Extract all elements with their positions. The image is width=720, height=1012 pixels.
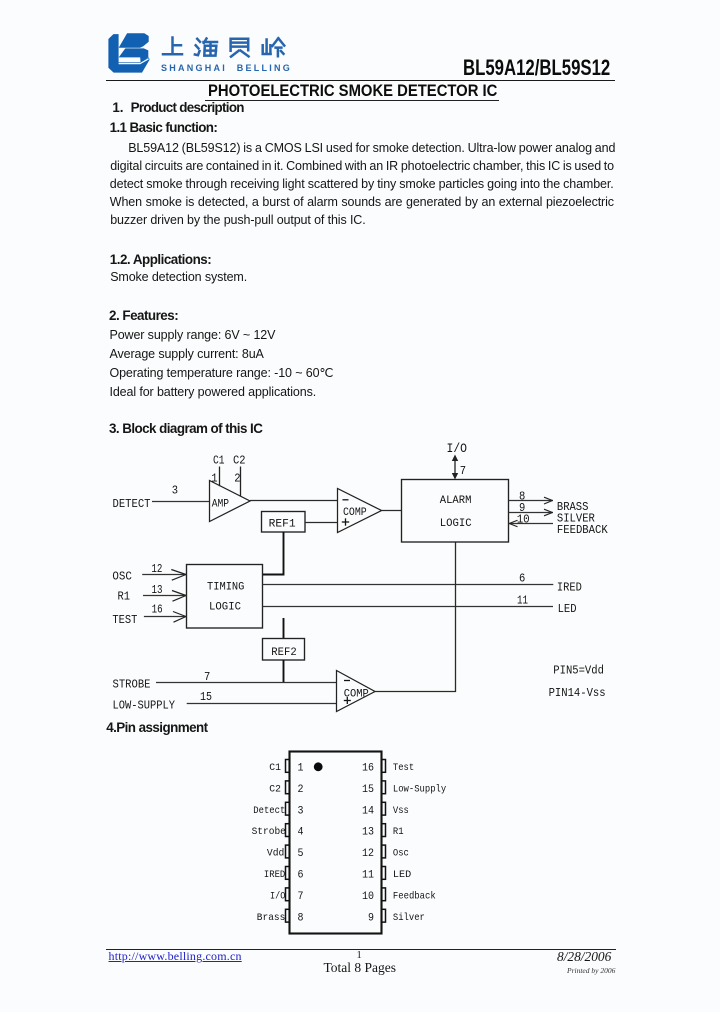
svg-text:Low-Supply: Low-Supply [393, 783, 446, 795]
svg-text:2: 2 [298, 784, 304, 796]
pin 13 number [362, 827, 374, 839]
pin C2 label [269, 783, 281, 795]
wire REF1 to COMP1 plus input [305, 522, 338, 524]
node DETECT [113, 497, 151, 511]
pin 2 stub wire [240, 467, 242, 497]
pin Low-Supply label [393, 783, 446, 795]
svg-text:10: 10 [362, 891, 374, 903]
svg-text:1: 1 [298, 763, 304, 775]
wire BRASS output pin8 [509, 497, 554, 504]
pin Feedback label [393, 890, 436, 902]
node R1 [118, 590, 131, 604]
pin 3 stub [286, 802, 290, 815]
wire REF2 bottom to STROBE wire [283, 660, 285, 683]
pin 16 stub [382, 760, 386, 773]
node LED [558, 602, 577, 616]
pin 6 number [298, 870, 304, 882]
pin Detect label [253, 805, 285, 817]
pin I/O label [270, 890, 285, 902]
svg-text:I/O: I/O [270, 890, 285, 902]
capacitor C1 label [213, 453, 225, 467]
pin 6 label [519, 572, 525, 586]
pin 2 label [234, 471, 240, 485]
svg-text:C1: C1 [269, 762, 281, 774]
comparator COMP2 [337, 671, 376, 712]
svg-text:Osc: Osc [393, 848, 409, 860]
pin 13 stub [382, 824, 386, 837]
pin 10 stub [382, 888, 386, 901]
pin 3 number [298, 805, 304, 817]
pin 2 number [298, 784, 304, 796]
reference REF2 [263, 639, 305, 661]
pin R1 label [393, 826, 404, 838]
svg-text:Vdd: Vdd [267, 848, 284, 860]
svg-text:11: 11 [362, 870, 374, 882]
wire SILVER output pin9 [509, 509, 554, 516]
pin 3 label [172, 483, 178, 497]
pin 12 number [362, 848, 374, 860]
svg-text:Test: Test [393, 762, 414, 774]
svg-text:Feedback: Feedback [393, 890, 436, 902]
pin 6 stub [286, 867, 290, 880]
svg-text:LED: LED [393, 869, 411, 881]
pin 7 stub [286, 888, 290, 901]
svg-text:R1: R1 [393, 826, 404, 838]
pin 8 number [298, 912, 304, 924]
wire COMP1 out to ALARM LOGIC [382, 510, 402, 512]
svg-text:8: 8 [298, 912, 304, 924]
reference REF1 [262, 512, 306, 533]
svg-text:Vss: Vss [393, 805, 409, 817]
wire LOW-SUPPLY to COMP2 plus [187, 703, 337, 705]
pin 15 label [200, 690, 212, 704]
net PIN14-Vss note [549, 686, 606, 700]
pin 1 number [298, 763, 304, 775]
pin Vdd label [267, 848, 284, 860]
pin Osc label [393, 848, 409, 860]
svg-text:7: 7 [298, 891, 304, 903]
net PIN5=Vdd note [553, 664, 604, 678]
pin Silver label [393, 912, 425, 924]
pin 11 number [362, 870, 374, 882]
node BRASS [557, 500, 589, 514]
pin 12 stub [382, 845, 386, 858]
岭 [263, 40, 271, 55]
pin Vss label [393, 805, 409, 817]
pin 7 number [298, 891, 304, 903]
svg-text:9: 9 [368, 912, 374, 924]
wire I/O bidirectional arrow [452, 455, 458, 480]
贝 [231, 39, 249, 51]
pin 7 label io [460, 464, 466, 478]
block ALARM LOGIC [402, 480, 509, 543]
pin C1 label [269, 762, 281, 774]
pin Test label [393, 762, 414, 774]
svg-text:14: 14 [362, 805, 374, 817]
svg-text:6: 6 [298, 870, 304, 882]
pin 4 number [298, 827, 304, 839]
pin 15 number [362, 784, 374, 796]
pin 1 stub [286, 760, 290, 773]
pin 14 stub [382, 802, 386, 815]
pin 10 label [517, 512, 530, 526]
pin 15 stub [382, 781, 386, 794]
IC package DIP-16 body [290, 752, 382, 934]
op-amp AMP [210, 481, 251, 522]
wire AMP out to COMP1 [250, 500, 337, 502]
pin 5 number [298, 848, 304, 860]
上 [163, 38, 182, 55]
svg-text:Brass: Brass [257, 912, 286, 924]
svg-text:5: 5 [298, 848, 304, 860]
SECTION 1 [112, 101, 123, 114]
pin 7 label strobe [204, 670, 210, 684]
pin Brass label [257, 912, 286, 924]
node I/O [447, 441, 468, 456]
pin 8 label [519, 489, 525, 503]
wire FEEDBACK input pin10 [509, 520, 554, 527]
pin 2 stub [286, 781, 290, 794]
node OSC [112, 570, 131, 584]
pin 4 stub [286, 824, 290, 837]
svg-text:4: 4 [298, 827, 304, 839]
pin 5 stub [286, 845, 290, 858]
block TIMING LOGIC [187, 565, 263, 629]
pin 1 stub wire [219, 467, 221, 487]
pin 13 label [152, 583, 163, 597]
node STROBE [113, 678, 151, 692]
pin 9 stub [382, 909, 386, 922]
pin 9 label [519, 501, 525, 515]
pin 16 label [152, 603, 163, 617]
svg-text:Silver: Silver [393, 912, 425, 924]
wire STROBE to COMP2 minus [156, 682, 337, 684]
svg-text:Strobe: Strobe [252, 826, 286, 838]
pin 16 number [362, 763, 374, 775]
pin 9 number [368, 912, 374, 924]
wire LED output [263, 606, 554, 608]
pin 14 number [362, 805, 374, 817]
wire REF1 bottom to TIMING LOGIC [263, 532, 284, 575]
pin Strobe label [252, 826, 286, 838]
node IRED [557, 581, 582, 595]
pin 1 marker dot [314, 762, 323, 771]
capacitor C2 label [233, 453, 246, 467]
node FEEDBACK [557, 523, 609, 537]
wire IRED output [263, 584, 554, 586]
wire COMP2 out to ALARM LOGIC bottom [375, 542, 456, 692]
wire OSC input [142, 570, 186, 581]
comparator COMP1 [338, 489, 382, 533]
wire TEST input [144, 612, 187, 623]
node LOW-SUPPLY [113, 698, 176, 712]
pin 8 stub [286, 909, 290, 922]
pin 10 number [362, 891, 374, 903]
svg-text:Detect: Detect [253, 805, 285, 817]
TITLE [208, 82, 497, 99]
pin 12 label [151, 562, 162, 576]
svg-text:16: 16 [362, 763, 374, 775]
svg-text:3: 3 [298, 805, 304, 817]
pin 1 label [211, 471, 217, 485]
node TEST [112, 613, 137, 627]
海 [195, 39, 200, 55]
wire REF2 top stub [283, 618, 285, 638]
svg-text:C2: C2 [269, 783, 281, 795]
node SILVER [557, 512, 595, 526]
wire R1 input [143, 591, 187, 602]
pin 11 stub [382, 867, 386, 880]
pin IRED label [264, 869, 285, 881]
FOOTER [106, 949, 616, 950]
pin 11 label [517, 594, 528, 608]
svg-text:13: 13 [362, 827, 374, 839]
pin LED label [393, 869, 411, 881]
wire DETECT to AMP pin3 [152, 501, 210, 503]
svg-text:IRED: IRED [264, 869, 285, 881]
svg-text:15: 15 [362, 784, 374, 796]
svg-text:12: 12 [362, 848, 374, 860]
